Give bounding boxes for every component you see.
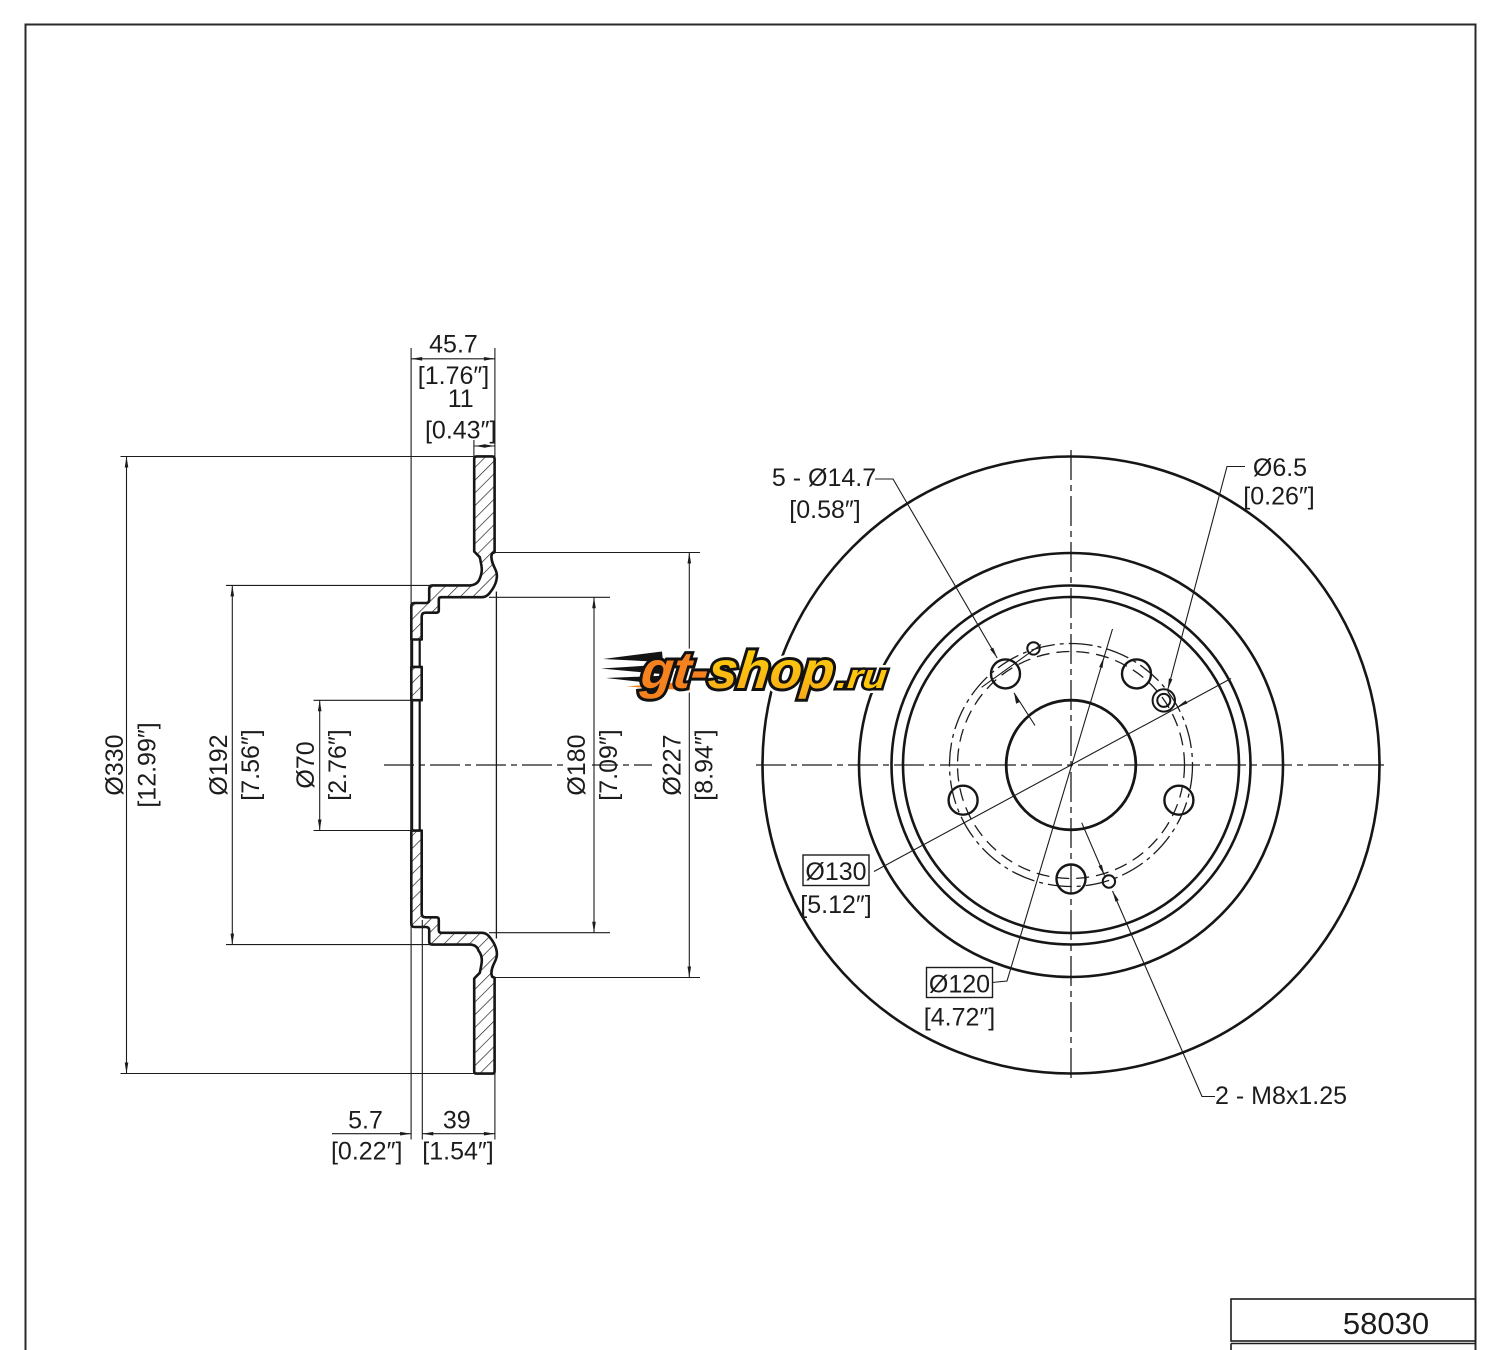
svg-text:[4.72″]: [4.72″]	[924, 1004, 995, 1032]
section view axis centerline	[384, 764, 652, 766]
svg-text:[12.99″]: [12.99″]	[134, 722, 162, 807]
dimension D192 [7.56"] hat outer diameter	[205, 585, 432, 944]
svg-text:Ø180: Ø180	[563, 734, 591, 795]
svg-text:Ø120: Ø120	[929, 971, 990, 999]
gt-shop.ru watermark logo	[601, 642, 891, 700]
svg-text:[7.56″]: [7.56″]	[237, 729, 265, 800]
outer circle D330	[763, 457, 1380, 1074]
svg-text:[0.22″]: [0.22″]	[331, 1138, 402, 1166]
bolt circle D120 dashed	[958, 652, 1185, 879]
M8 service hole 2	[1103, 875, 1115, 887]
label D6.5 [0.26"] with leader to set screw hole	[1168, 454, 1315, 690]
section cut upper half: friction ring, neck, hat plate, steps, mounting wall	[411, 456, 497, 639]
M8 service hole 1	[1027, 642, 1039, 654]
svg-text:[0.43″]: [0.43″]	[425, 417, 496, 445]
dimension D227 [8.94"] ring inner diameter	[495, 553, 719, 978]
stud hole 2 of 5 D14.7	[1122, 659, 1151, 688]
label 5-D14.7 [0.58"] with leader to stud hole 1	[772, 464, 997, 658]
stud hole silhouette edges in wall	[412, 641, 420, 667]
boxed label D130 [5.12"] with diameter leader line	[800, 679, 1231, 920]
section cut wall piece between stud hole and center bore	[411, 667, 421, 700]
svg-text:[5.12″]: [5.12″]	[800, 891, 871, 919]
boxed label D120 [4.72"] with leader to bolt circle	[924, 629, 1113, 1032]
circle D192	[892, 586, 1251, 945]
circle D227	[859, 553, 1283, 977]
svg-text:[7.09″]: [7.09″]	[595, 729, 623, 800]
bolt circle D130 dash-dot	[950, 644, 1193, 887]
svg-text:Ø70: Ø70	[292, 741, 320, 788]
front view horizontal centerline	[756, 764, 1386, 766]
front view vertical centerline	[1070, 450, 1072, 1082]
svg-text:5 - Ø14.7: 5 - Ø14.7	[772, 464, 876, 492]
svg-text:Ø330: Ø330	[101, 734, 129, 795]
svg-text:[0.26″]: [0.26″]	[1243, 483, 1314, 511]
svg-text:[8.94″]: [8.94″]	[691, 729, 719, 800]
section cut lower half: mounting wall, steps, hat plate, neck, friction ring	[411, 831, 497, 1074]
label 2-M8x1.25 with leader to M8 hole 2	[1082, 823, 1347, 1110]
stud hole 5 of 5 D14.7	[949, 786, 978, 815]
dimension 45.7 [1.76"] overall width	[411, 331, 495, 1140]
dimension D180 [7.09"] drum inner diameter	[489, 597, 623, 932]
svg-text:11: 11	[448, 385, 474, 413]
center bore silhouette edges in wall	[412, 701, 420, 829]
dimension 11 [0.43"] ring thickness	[425, 385, 496, 456]
svg-text:Ø227: Ø227	[659, 734, 687, 795]
svg-text:58030: 58030	[1343, 1306, 1429, 1341]
D6.5 set screw hole with chamfer circle	[1153, 689, 1175, 711]
svg-text:45.7: 45.7	[429, 331, 478, 359]
svg-text:[1.54″]: [1.54″]	[422, 1138, 493, 1166]
svg-text:Ø6.5: Ø6.5	[1253, 454, 1307, 482]
svg-text:Ø130: Ø130	[805, 858, 866, 886]
svg-text:39: 39	[443, 1107, 471, 1135]
svg-text:[0.58″]: [0.58″]	[789, 496, 860, 524]
circle D180	[903, 597, 1239, 933]
svg-text:2 - M8x1.25: 2 - M8x1.25	[1215, 1082, 1347, 1110]
svg-text:Ø192: Ø192	[205, 734, 233, 795]
svg-text:[2.76″]: [2.76″]	[324, 729, 352, 800]
dimension D330 [12.99"] outer diameter	[101, 457, 474, 1074]
stud hole 4 of 5 D14.7	[1057, 865, 1086, 894]
svg-text:gt-shop: gt-shop	[637, 642, 837, 700]
svg-text:5.7: 5.7	[348, 1107, 383, 1135]
stud hole 1 of 5 D14.7	[991, 659, 1020, 688]
svg-text:.ru: .ru	[835, 658, 889, 696]
construction line through stud hole 1 to M8 hole 1	[982, 645, 1041, 688]
title block with part number 58030	[1231, 1299, 1476, 1350]
hub center bore D70	[1006, 700, 1136, 830]
arrowed pointer at stud hole 1 lower edge	[1014, 693, 1035, 726]
stud hole 3 of 5 D14.7	[1164, 786, 1193, 815]
dimension 39 [1.54"] hat depth	[422, 920, 495, 1166]
dimension 5.7 [0.22"] wall thickness	[331, 1107, 411, 1166]
dimension D70 [2.76"] center bore	[292, 700, 411, 830]
drum interior floor edge line	[495, 592, 497, 939]
